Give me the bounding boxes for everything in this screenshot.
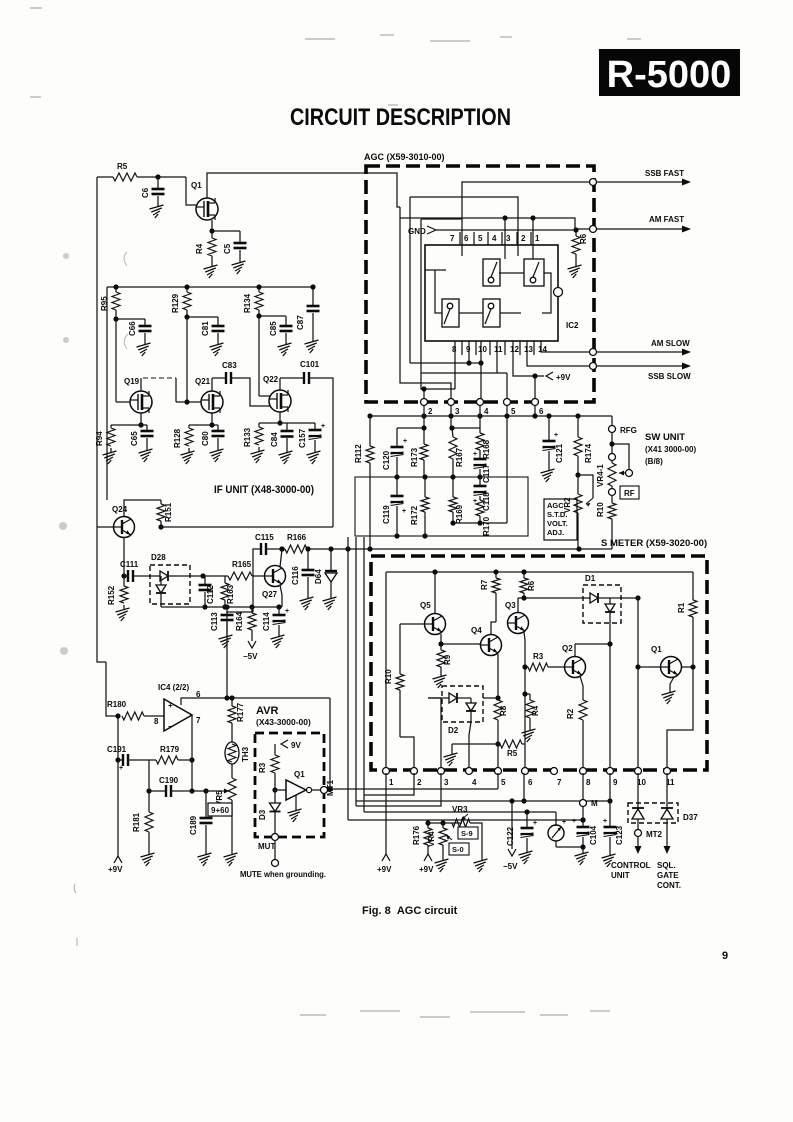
svg-text:R4: R4 <box>195 243 204 254</box>
wire VR3 node <box>428 820 462 828</box>
svg-text:C112: C112 <box>206 585 215 604</box>
ground R133 <box>251 447 265 463</box>
capacitor C101 <box>300 360 320 384</box>
resistor R151 <box>157 500 173 522</box>
svg-text:14: 14 <box>538 345 547 354</box>
power +9V in AGC <box>546 372 571 382</box>
AVR dashed enclosure <box>255 733 324 837</box>
node R134-C85 <box>256 310 286 319</box>
ground C81 <box>210 340 224 356</box>
wire Q2 collector <box>575 644 610 656</box>
wire MT2 down control <box>635 836 642 854</box>
terminal VR4-1 bottom <box>609 486 616 496</box>
capacitor C122 <box>506 812 537 848</box>
wire +9V feed pin12 <box>513 341 544 379</box>
resistor R3 avr <box>258 744 279 790</box>
svg-text:RF: RF <box>624 489 635 498</box>
svg-text:+: + <box>403 438 407 445</box>
svg-text:S METER (X59-3020-00): S METER (X59-3020-00) <box>601 538 707 549</box>
wire VR3 right <box>470 823 482 856</box>
ground C114 <box>271 632 285 648</box>
svg-text:R-5000: R-5000 <box>607 54 732 96</box>
svg-text:R10: R10 <box>596 502 605 517</box>
ground R181 <box>141 850 155 866</box>
capacitor C80 <box>201 425 225 446</box>
svg-text:Q5: Q5 <box>420 601 431 610</box>
capacitor C189 <box>189 791 213 850</box>
capacitor C112 <box>199 576 216 607</box>
wire to Q21 gate <box>176 317 201 405</box>
svg-text:Q1: Q1 <box>294 770 305 779</box>
resistor R177 <box>228 698 245 742</box>
wire left rail from R5 corner down to Q24 base <box>96 177 98 527</box>
svg-text:Q21: Q21 <box>195 377 211 386</box>
analog switch S2 in IC2 <box>524 259 544 286</box>
svg-text:R172: R172 <box>410 505 419 525</box>
terminal RFG <box>609 426 637 436</box>
wire maze stub pin3 <box>504 218 506 259</box>
capacitor C119 <box>382 477 406 536</box>
potentiometer VR2 <box>563 475 593 549</box>
terminal SSB FAST <box>590 179 597 186</box>
resistor R172 <box>410 477 429 536</box>
capacitor C157 <box>298 423 325 448</box>
svg-text:C122: C122 <box>506 826 515 846</box>
svg-text:C115: C115 <box>255 533 274 542</box>
svg-text:4: 4 <box>484 407 489 416</box>
svg-text:IC2: IC2 <box>566 321 579 330</box>
wire Q4 emitter down to R8 <box>497 654 499 700</box>
svg-text:R176: R176 <box>412 825 421 845</box>
wire GND label <box>408 226 575 236</box>
capacitor C66 <box>128 319 152 340</box>
wire Q4 collector <box>491 622 496 634</box>
svg-text:9: 9 <box>613 778 618 787</box>
svg-text:R179: R179 <box>160 745 180 754</box>
resistor R128 <box>173 425 193 448</box>
svg-text:6: 6 <box>528 778 533 787</box>
svg-text:9V: 9V <box>291 741 301 750</box>
terminal AM FAST <box>590 226 597 233</box>
svg-text:7: 7 <box>450 234 455 243</box>
wire pin9 to C123 <box>609 773 611 827</box>
svg-text:−: − <box>168 722 173 731</box>
resistor R167 <box>449 416 464 477</box>
transistor Q3 <box>505 601 529 634</box>
S-9 box <box>458 827 478 839</box>
ground C104 <box>575 849 589 865</box>
svg-text:SSB FAST: SSB FAST <box>645 169 684 178</box>
svg-text:R163: R163 <box>226 584 235 604</box>
wire Q27 collector <box>279 546 284 567</box>
wire maze D <box>421 219 462 389</box>
wire pin3 below <box>356 773 441 806</box>
svg-text:C190: C190 <box>159 776 179 785</box>
svg-text:R5: R5 <box>117 162 128 171</box>
detector bottom rail <box>161 604 282 609</box>
ground C80 <box>210 446 224 462</box>
diode assembly D2 <box>428 686 483 735</box>
resistor R10 sw <box>596 495 616 549</box>
svg-text:AGC (X59-3010-00): AGC (X59-3010-00) <box>364 152 445 162</box>
wire C115 feed from IC4 input <box>253 549 261 612</box>
ground VR3 <box>474 856 488 872</box>
ground C189 <box>198 850 212 866</box>
svg-text:1: 1 <box>389 778 394 787</box>
svg-text:M: M <box>591 799 598 808</box>
resistor R2 <box>566 700 587 773</box>
wire to C5 <box>212 231 240 243</box>
wire TH3 to VR5 <box>231 764 233 778</box>
S meter dashed enclosure <box>371 556 707 770</box>
svg-text:+: + <box>562 819 566 826</box>
svg-text:R7: R7 <box>480 579 489 590</box>
svg-text:R167: R167 <box>455 447 464 467</box>
wire Q27 emitter <box>280 585 282 607</box>
svg-text:R3: R3 <box>258 762 267 773</box>
svg-text:C116: C116 <box>291 566 300 585</box>
transistor Q2 <box>562 644 586 678</box>
wire VR4-1 wiper link <box>612 444 629 470</box>
IF unit supply rail <box>107 284 313 289</box>
svg-text:MT2: MT2 <box>646 830 663 839</box>
resistor R169 <box>449 477 464 524</box>
wire to Q19 gate <box>116 319 130 402</box>
resistor R4 <box>195 231 216 262</box>
AGC line to S-meter and SW unit <box>305 546 612 551</box>
wire Q24 base <box>97 526 113 528</box>
svg-text:C66: C66 <box>128 321 137 336</box>
wire Q21 drain to C83 <box>212 378 226 391</box>
wire AM SLOW net <box>541 341 590 352</box>
wire R179 to node <box>178 757 195 762</box>
ground R152 <box>116 605 130 621</box>
wire R10 to pin2 <box>400 737 414 773</box>
resistor R94 <box>95 425 115 446</box>
capacitor C6 <box>141 177 165 202</box>
svg-text:IC4 (2/2): IC4 (2/2) <box>158 683 189 692</box>
wire Q19 source <box>111 413 147 428</box>
svg-text:SQL.: SQL. <box>657 861 676 870</box>
svg-text:Fig. 8 AGC circuit: Fig. 8 AGC circuit <box>362 905 458 917</box>
bus below AGC connector <box>367 405 612 426</box>
terminal MT1 <box>321 779 336 796</box>
svg-text:VOLT.: VOLT. <box>547 519 568 528</box>
wire Q24 emitter down <box>121 538 126 579</box>
output SSB FAST <box>596 169 691 186</box>
svg-text:(X43-3000-00): (X43-3000-00) <box>256 717 311 727</box>
svg-text:4: 4 <box>492 234 497 243</box>
diode assembly D1 <box>583 574 621 623</box>
analog switch S1 in IC2 <box>483 259 500 286</box>
resistor R170 <box>476 496 491 536</box>
svg-text:R170: R170 <box>482 516 491 536</box>
ground C65 <box>139 446 153 462</box>
svg-text:+: + <box>572 818 576 825</box>
IC2 bottom pin numbers 8 9 10 11 12 13 14 <box>452 341 547 355</box>
ground R4 meter <box>522 726 536 742</box>
capacitor C120 <box>382 428 424 477</box>
svg-text:C111: C111 <box>120 560 139 569</box>
terminal MT2 <box>635 830 663 840</box>
svg-text:R9: R9 <box>443 654 452 665</box>
power -5V bottom <box>503 849 518 871</box>
transistor Q21 <box>195 377 223 413</box>
S meter connector pins 1-11 <box>383 768 676 788</box>
node after D28 <box>190 573 228 578</box>
ground R128 <box>181 448 195 464</box>
wire R5 right <box>522 743 525 745</box>
svg-text:D1: D1 <box>585 574 596 583</box>
wire connector5 stub <box>497 373 507 403</box>
svg-text:R165: R165 <box>232 560 252 569</box>
terminal AM SLOW <box>590 349 597 356</box>
power -5V at R164 <box>243 641 258 661</box>
resistor R174 <box>574 416 593 478</box>
analog switch S3 in IC2 <box>442 299 459 327</box>
wire R5 to node and gate corner <box>137 174 196 205</box>
svg-text:4: 4 <box>472 778 477 787</box>
svg-text:R168: R168 <box>482 439 491 459</box>
svg-text:R152: R152 <box>107 585 116 605</box>
ground C5 <box>232 258 246 274</box>
svg-text:+9V: +9V <box>108 865 123 874</box>
resistor R152 <box>107 576 128 605</box>
wire R180 to op-amp <box>144 715 164 717</box>
wire detector line C101-R151 <box>158 521 333 530</box>
wire maze C <box>410 197 518 363</box>
capacitor C118 <box>473 477 491 511</box>
svg-text:Q2: Q2 <box>562 644 573 653</box>
wire R165 to Q27 base <box>252 575 264 577</box>
svg-text:UNIT: UNIT <box>611 871 630 880</box>
ground VR5 <box>224 850 238 866</box>
diode assembly D28 <box>150 553 190 607</box>
wire Q21 source <box>189 413 218 428</box>
wire Q2 emitter to R2 <box>580 676 583 700</box>
svg-text:5: 5 <box>478 234 483 243</box>
svg-text:R94: R94 <box>95 431 104 446</box>
ground C123 <box>602 851 616 867</box>
wire MUT stub <box>274 840 276 860</box>
wire rail down to +9V <box>117 760 119 856</box>
svg-text:C84: C84 <box>270 432 279 447</box>
node R95-C66 <box>113 310 145 322</box>
capacitor C83 <box>222 361 237 384</box>
svg-text:R164: R164 <box>235 611 244 631</box>
wire R8 R5 junction to pin5 <box>495 741 500 773</box>
svg-text:(B/8): (B/8) <box>645 457 663 466</box>
wire R1 col to pin11 <box>667 667 693 773</box>
svg-text:C157: C157 <box>298 428 307 448</box>
svg-text:−5V: −5V <box>243 652 258 661</box>
capacitor C5 <box>223 243 247 258</box>
svg-text:MUT: MUT <box>258 842 275 851</box>
wire meter feed <box>364 537 556 815</box>
ground C85 <box>278 340 292 356</box>
svg-text:−5V: −5V <box>503 862 518 871</box>
svg-text:R4: R4 <box>531 705 540 716</box>
power +9V left <box>108 856 123 874</box>
capacitor C123 <box>603 818 624 851</box>
power +9V under pin1 <box>377 854 392 874</box>
AVR label <box>256 705 311 727</box>
svg-text:+: + <box>554 432 558 439</box>
svg-text:C123: C123 <box>615 825 624 845</box>
svg-text:C120: C120 <box>382 450 391 470</box>
wire Q3 emitter chain <box>522 632 527 744</box>
node R129-C81 <box>184 310 218 320</box>
svg-text:Q1: Q1 <box>651 645 662 654</box>
ground VR4 <box>435 856 449 872</box>
svg-text:R151: R151 <box>164 502 173 522</box>
svg-text:C85: C85 <box>269 321 278 336</box>
wire IC4 output down <box>191 715 193 760</box>
resistor R173 <box>410 416 428 477</box>
svg-text:C189: C189 <box>189 815 198 835</box>
svg-text:R6: R6 <box>579 233 588 244</box>
meter M1 <box>548 812 583 847</box>
IF unit label <box>214 484 314 496</box>
svg-text:R10: R10 <box>384 669 393 684</box>
svg-text:IF UNIT (X48-3000-00): IF UNIT (X48-3000-00) <box>214 484 314 496</box>
svg-text:2: 2 <box>428 407 433 416</box>
resistor R1 <box>677 572 697 667</box>
ground C6 <box>150 202 164 218</box>
svg-text:C101: C101 <box>300 360 320 369</box>
svg-text:C104: C104 <box>589 825 598 845</box>
label SQL GATE CONT <box>657 861 681 890</box>
svg-text:12: 12 <box>510 345 519 354</box>
svg-text:TH3: TH3 <box>241 746 250 762</box>
svg-text:AGC: AGC <box>547 501 564 510</box>
potentiometer VR4 <box>427 828 452 856</box>
terminal MUT <box>258 834 279 852</box>
noise marks <box>30 8 128 946</box>
svg-text:S.T.D.: S.T.D. <box>547 510 567 519</box>
svg-text:6: 6 <box>464 234 469 243</box>
resistor R6 <box>572 227 588 262</box>
svg-text:CONTROL: CONTROL <box>611 861 651 870</box>
resistor R4 meter <box>525 694 540 726</box>
svg-text:+9V: +9V <box>556 373 571 382</box>
svg-text:8: 8 <box>154 717 159 726</box>
svg-text:SW UNIT: SW UNIT <box>645 432 685 443</box>
network mid rail dots <box>394 474 482 538</box>
capacitor C65 <box>130 425 154 446</box>
resistor R7 <box>480 572 500 622</box>
resistor R5 <box>113 162 137 181</box>
label CONTROL UNIT <box>611 861 651 880</box>
wire Q22 drain to C101 <box>280 378 304 390</box>
svg-text:9: 9 <box>722 950 728 962</box>
IF unit left border <box>106 287 108 500</box>
svg-text:R181: R181 <box>132 812 141 832</box>
svg-text:AVR: AVR <box>256 705 278 717</box>
ground R9 <box>433 672 447 688</box>
IC2 top pin numbers 7 6 5 4 3 2 1 <box>450 232 540 245</box>
transistor Q5 <box>420 601 446 635</box>
network ring wire <box>355 477 528 536</box>
wire R3 to Q2 base <box>525 666 564 668</box>
svg-text:2: 2 <box>521 234 526 243</box>
wire maze B (SSB FAST net) <box>462 182 590 256</box>
svg-text:D28: D28 <box>151 553 166 562</box>
ground R94 <box>103 448 117 464</box>
capacitor C116 <box>291 549 315 594</box>
svg-text:Q3: Q3 <box>505 601 516 610</box>
svg-text:D3: D3 <box>258 809 267 820</box>
ground C116 <box>300 594 314 610</box>
power +9V under R176 <box>419 854 434 874</box>
analog switch S4 in IC2 <box>483 299 500 327</box>
ground Q1 meter <box>662 688 676 704</box>
transistor Q4 <box>471 626 502 656</box>
wire pin1 to +9V <box>385 773 387 854</box>
capacitor C121 <box>543 416 565 466</box>
capacitor C84 <box>270 423 294 448</box>
wire D1 bottom junction <box>607 623 612 773</box>
svg-text:SSB SLOW: SSB SLOW <box>648 372 691 381</box>
wire pin10-connector4 net <box>469 341 484 403</box>
wire maze left vertical A <box>400 207 451 403</box>
wire -5V stub <box>509 798 514 849</box>
ground step S meter <box>444 744 499 766</box>
wire pin11 net <box>421 341 497 373</box>
svg-text:8: 8 <box>586 778 591 787</box>
resistor R164 <box>235 607 256 641</box>
resistor R179 <box>156 745 180 764</box>
ground C113 <box>219 632 233 648</box>
capacitor C115 <box>255 533 274 555</box>
svg-text:(X41 3000-00): (X41 3000-00) <box>645 445 696 454</box>
resistor R112 <box>354 416 374 549</box>
transistor Q22 <box>263 375 291 412</box>
resistor R165 <box>228 560 252 580</box>
IC2 internal routing <box>425 270 551 313</box>
gain label 9+60 box <box>208 803 232 816</box>
capacitor C113 <box>210 607 234 632</box>
wire D2 bottom to pin4 <box>469 722 471 773</box>
svg-text:CIRCUIT DESCRIPTION: CIRCUIT DESCRIPTION <box>290 104 511 131</box>
svg-text:+: + <box>321 423 325 430</box>
svg-text:R166: R166 <box>287 533 307 542</box>
resistor R181 <box>132 791 153 850</box>
svg-text:Q1: Q1 <box>191 181 202 190</box>
resistor R133 <box>243 423 263 447</box>
svg-text:2: 2 <box>417 778 422 787</box>
ground D64 <box>323 594 337 610</box>
thermistor TH3 <box>225 742 250 764</box>
svg-text:D2: D2 <box>448 726 459 735</box>
potentiometer VR5 <box>215 778 236 850</box>
terminal SSB SLOW <box>590 363 597 370</box>
buffer Q1 in AVR <box>286 770 312 822</box>
AGC unit dashed enclosure <box>366 166 594 402</box>
wire SSB SLOW net <box>527 341 590 366</box>
ground C121 <box>541 466 555 482</box>
wire maze horizontal y218 (AM FAST net) <box>400 215 590 229</box>
ground R4 <box>204 262 218 278</box>
ground R6 <box>568 262 582 278</box>
svg-text:7: 7 <box>557 778 562 787</box>
wire Q3 collector to D1 <box>518 595 583 612</box>
diode D3 <box>258 790 281 834</box>
svg-text:C83: C83 <box>222 361 237 370</box>
svg-text:R2: R2 <box>566 708 575 719</box>
svg-text:+: + <box>285 608 289 615</box>
resistor R166 <box>285 533 307 553</box>
